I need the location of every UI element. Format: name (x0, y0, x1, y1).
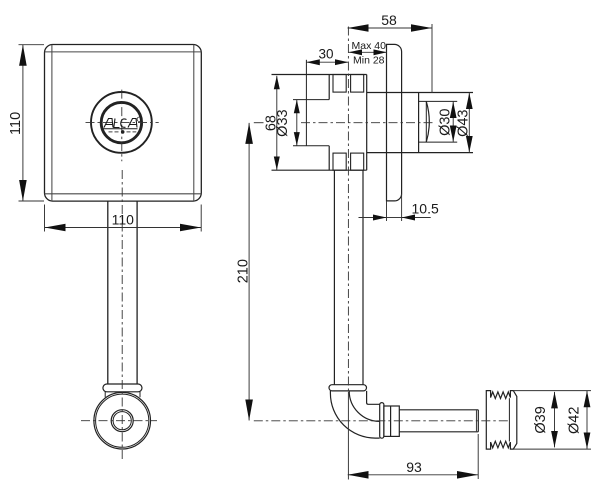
svg-text:Max 40: Max 40 (352, 40, 387, 52)
svg-text:30: 30 (318, 47, 333, 62)
svg-text:Ø33: Ø33 (275, 109, 291, 136)
svg-text:Ø42: Ø42 (566, 407, 582, 434)
svg-text:93: 93 (406, 459, 422, 475)
svg-text:10.5: 10.5 (412, 200, 439, 216)
svg-text:Ø30: Ø30 (438, 108, 454, 135)
svg-text:Ø43: Ø43 (456, 109, 472, 136)
svg-text:Ø39: Ø39 (533, 406, 549, 433)
svg-text:210: 210 (236, 259, 252, 283)
svg-text:Min 28: Min 28 (353, 54, 385, 66)
svg-text:110: 110 (112, 212, 135, 228)
svg-text:110: 110 (8, 112, 24, 135)
svg-text:58: 58 (381, 12, 397, 28)
